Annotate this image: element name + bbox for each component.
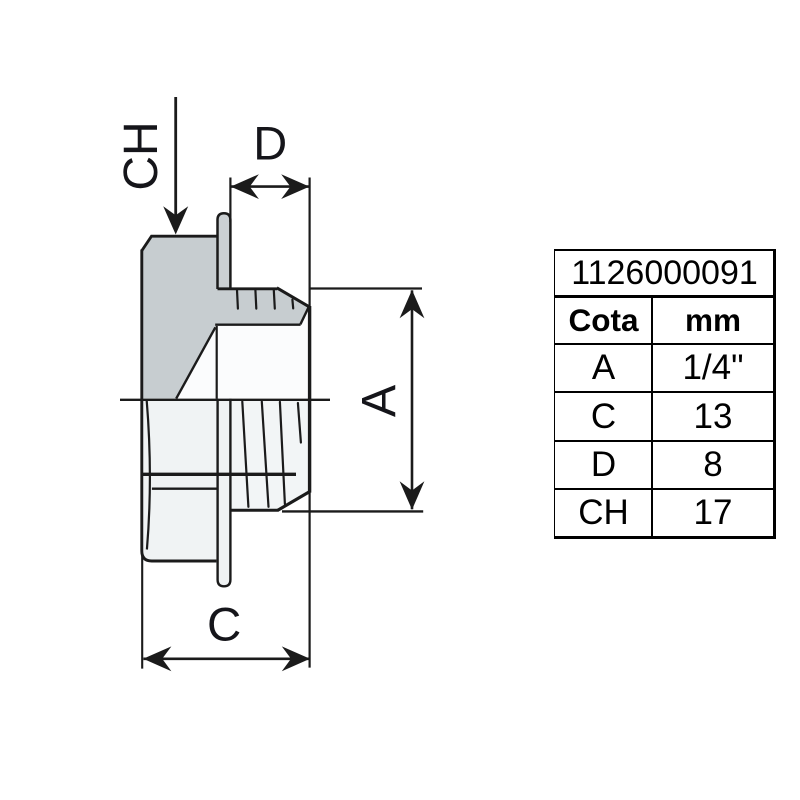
hex face edge in void xyxy=(216,326,218,399)
end face thick segment xyxy=(308,306,311,493)
A top extension xyxy=(310,287,422,289)
CH down arrow xyxy=(163,206,188,234)
hex second face line lower xyxy=(152,488,217,490)
outer chamfer top xyxy=(277,288,309,307)
hex body lower half (external view) xyxy=(142,399,218,561)
D right arrow xyxy=(281,174,309,199)
flange stub top (gray, rounded cap) xyxy=(218,213,231,289)
A down arrow xyxy=(400,481,425,509)
long vertical: D right ext + C right ext xyxy=(309,178,311,668)
hex corner arc lower xyxy=(147,401,150,550)
inner chamfer top xyxy=(300,307,308,324)
thread lower half (external view) xyxy=(230,399,309,510)
D dimension line xyxy=(231,185,310,188)
A dimension line xyxy=(411,290,414,509)
hex body upper half (section, gray) xyxy=(142,236,218,398)
thread top (root) line xyxy=(218,287,278,290)
bottom chamfer xyxy=(278,492,310,510)
A up arrow xyxy=(400,290,425,318)
bore void (white) xyxy=(176,309,309,399)
D left arrow xyxy=(231,174,259,199)
A bottom extension xyxy=(282,510,423,512)
hex top edge xyxy=(142,236,218,251)
C left arrow xyxy=(143,646,171,671)
C dimension line xyxy=(143,657,309,660)
fills xyxy=(142,236,310,561)
D left extension xyxy=(229,178,231,223)
table xyxy=(0,0,800,1)
root line lower xyxy=(143,473,297,476)
hex left edge + bottom edge xyxy=(142,250,217,562)
cone (countersink) xyxy=(176,327,215,398)
labels xyxy=(118,122,166,191)
centerline xyxy=(120,399,330,401)
arrowheads (stealth style) xyxy=(143,174,424,671)
thread wall band (section, gray) xyxy=(215,289,309,325)
C left extension line xyxy=(141,556,143,669)
lower thread helix lines xyxy=(242,402,301,507)
CH leader line xyxy=(174,97,177,218)
bore line xyxy=(215,324,300,326)
part outline lines xyxy=(120,97,423,669)
thread bottom silhouette xyxy=(230,509,278,512)
upper thread ticks xyxy=(237,290,293,309)
C right arrow xyxy=(282,646,310,671)
flange stub bottom (light, rounded cap) xyxy=(218,399,231,587)
